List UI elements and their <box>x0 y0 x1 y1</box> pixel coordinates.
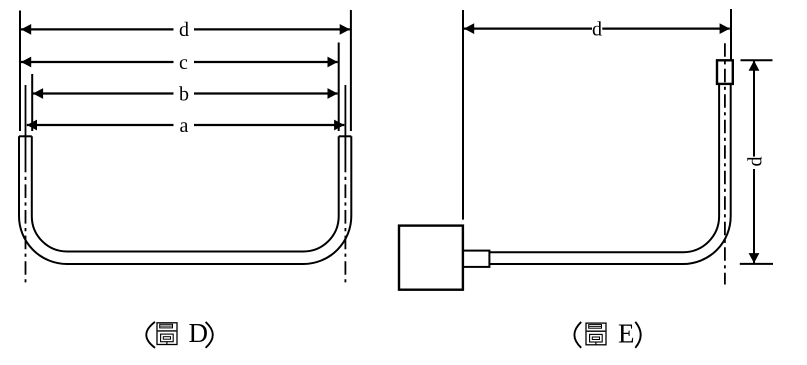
svg-text:d: d <box>592 18 602 40</box>
svg-text:d: d <box>745 157 767 167</box>
svg-text:b: b <box>179 83 189 105</box>
svg-text:c: c <box>179 52 188 74</box>
svg-text:a: a <box>180 115 189 137</box>
svg-text:d: d <box>179 19 189 41</box>
svg-text:E: E <box>618 319 635 349</box>
